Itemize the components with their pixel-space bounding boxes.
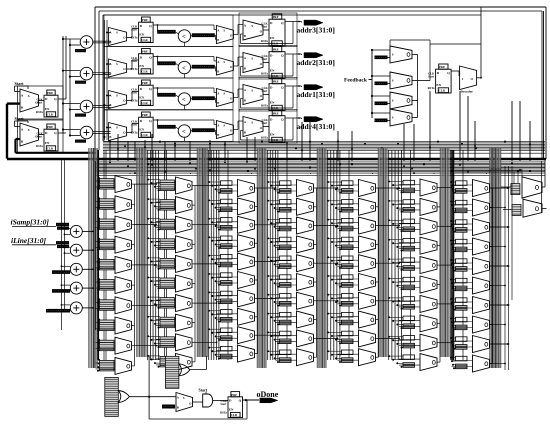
wire cell X6_6 in: [399, 281, 420, 283]
wire label to cmp row1: [176, 32, 179, 34]
wire cell X4_2 in: [276, 203, 297, 205]
row3 group box: [104, 78, 233, 110]
bus arrow addr3[31:0]: [304, 20, 323, 25]
wire cell X5_7 in: [338, 297, 359, 299]
cell mux X7_4: [456, 239, 468, 244]
wire cell X1_3 out: [132, 224, 135, 226]
wire adder A2 inputs: [63, 70, 80, 72]
cell mux X1_8: [100, 320, 115, 331]
svg-text:B: B: [217, 69, 219, 73]
feeder through-lines col4: [286, 150, 288, 360]
feeder through-lines col5: [348, 150, 350, 360]
wire cell X7_9 out: [490, 343, 493, 345]
wire reg out row1: [153, 24, 157, 26]
adder A3: [80, 100, 93, 113]
svg-text:EN: EN: [270, 132, 275, 136]
wire cell X3_8 out: [255, 316, 258, 318]
wire row2 inputs: [107, 63, 111, 65]
cell mux X7_7: [456, 298, 468, 303]
svg-text:iSamp[31:0]: iSamp[31:0]: [11, 218, 50, 227]
row4 right group box: [239, 110, 297, 144]
wire cell X5_8 in: [338, 316, 359, 318]
cell mux X2_10: [160, 356, 175, 367]
start block 1 enclosure: [18, 86, 64, 119]
wire cell X7_9 in: [452, 340, 473, 342]
cell mux X4_2: [280, 200, 292, 205]
mux M2_2: [216, 57, 233, 75]
svg-text:EN: EN: [139, 64, 144, 68]
wire mdone out: [193, 401, 203, 403]
feedback mux FM2: [390, 72, 412, 89]
svg-text:Q: Q: [149, 24, 152, 28]
wire cell X7_1 in: [452, 184, 473, 186]
wire cell X6_7 in: [399, 300, 420, 302]
wire adder A4 out: [93, 131, 111, 133]
bus junction dots: [109, 161, 111, 163]
svg-text:<: <: [182, 65, 186, 72]
mux start1: [20, 89, 39, 112]
output mux Y2: [523, 199, 542, 217]
cell mux X1_9: [100, 340, 115, 351]
wire top border outer: [95, 6, 546, 8]
wire cell X2_2 in: [156, 201, 176, 203]
register start2: [47, 124, 55, 129]
svg-text:RSTa: RSTa: [261, 104, 268, 108]
wire cell X1_7 out: [132, 304, 135, 306]
svg-text:addr2[31:0]: addr2[31:0]: [297, 58, 335, 67]
or gate G1: [118, 391, 129, 403]
wire cell X6_1 out: [437, 187, 440, 189]
adder AL1: [70, 225, 82, 237]
svg-text:Q: Q: [149, 87, 152, 91]
feeder lines col1: [98, 150, 100, 360]
wire cell X4_1 in: [276, 184, 297, 186]
wire cell X3_7 out: [255, 297, 258, 299]
cell mux X3_5: [221, 254, 233, 259]
wire cell X2_10 in: [156, 358, 176, 360]
wire cell X3_1 out: [255, 187, 258, 189]
wire cell X2_5 out: [192, 263, 195, 265]
cell mux X4_1: [280, 181, 292, 186]
wire cell X3_4 in: [217, 239, 238, 241]
wire adder AL5 in: [62, 304, 71, 306]
output mux hatch 1: [511, 184, 520, 195]
wire G2 out: [190, 369, 207, 371]
svg-text:Start: Start: [262, 58, 268, 61]
wire feedback mux 2 out: [412, 80, 418, 82]
mux M1_3: [109, 91, 127, 109]
svg-text:Q: Q: [447, 71, 450, 75]
value label AL4: [52, 289, 70, 293]
cell mux X5_8: [342, 312, 354, 317]
wire cell X3_5 in: [217, 258, 238, 260]
svg-text:PRE: PRE: [273, 112, 279, 116]
svg-text:<: <: [182, 128, 186, 135]
wire cell X5_5 out: [376, 262, 379, 264]
svg-text:RSTa: RSTa: [36, 144, 43, 148]
wire cell X6_2 out: [437, 206, 440, 208]
wire mux to reg row2: [127, 68, 132, 70]
wire cell X6_10 out: [437, 361, 440, 363]
wire cell X5_3 out: [376, 225, 379, 227]
wire mux1 to mux2 row2: [233, 65, 238, 67]
wire right collect vertical 3: [511, 166, 513, 300]
wire cell X1_4 out: [132, 244, 135, 246]
cell mux X3_7: [221, 291, 233, 296]
wire cell X5_3 in: [338, 222, 359, 224]
svg-text:RSTa: RSTa: [220, 411, 227, 415]
wire reg2 feedback loop row2: [292, 54, 294, 76]
feeder through-lines col1: [103, 150, 105, 362]
svg-text:EN: EN: [270, 100, 275, 104]
bus arrow addr1[31:0]: [304, 85, 323, 90]
mux start2: [20, 123, 39, 146]
feeder lines col6: [388, 150, 390, 360]
svg-text:EN: EN: [139, 95, 144, 99]
svg-text:CLR: CLR: [141, 133, 148, 137]
wire cmp4 down: [183, 137, 185, 141]
register R2_1: [272, 14, 282, 19]
wire reg2 Q row4: [285, 117, 302, 119]
adder A4: [80, 126, 93, 139]
wire cell X6_5 out: [437, 264, 440, 266]
svg-text:Start: Start: [428, 75, 434, 78]
wire cmp out row3: [191, 98, 192, 101]
svg-text:S: S: [28, 94, 30, 98]
wire cell X7_7 out: [490, 304, 493, 306]
wire cell X5_9 in: [338, 334, 359, 336]
svg-text:EN: EN: [229, 407, 234, 411]
register start1: [47, 90, 55, 95]
cell mux X7_1: [456, 181, 468, 186]
wire feedback mux 3 in: [372, 95, 390, 97]
cell mux X6_2: [403, 200, 415, 205]
comparator CMP3: [178, 93, 190, 105]
bus arrow addr4[31:0]: [304, 117, 323, 122]
wire mux2 to reg2 row4: [263, 126, 269, 128]
svg-text:PRE: PRE: [273, 80, 279, 84]
cell mux X5_9: [342, 331, 354, 336]
bus horizontal lines lower: [95, 161, 545, 163]
mux M3_2: [243, 53, 263, 73]
cell mux X3_2: [221, 199, 233, 204]
wire cell X2_8 in: [156, 319, 176, 321]
wire cell X1_3 in: [96, 221, 116, 223]
svg-text:Start: Start: [37, 135, 43, 138]
wire cell X1_7 in: [96, 301, 116, 303]
svg-text:RSTa: RSTa: [261, 39, 268, 43]
wire cell X4_10 out: [314, 356, 317, 358]
svg-text:Start: Start: [262, 122, 268, 125]
svg-text:PRE: PRE: [439, 65, 445, 69]
comparator CMP4: [178, 125, 190, 137]
feeder lines col2: [147, 150, 149, 360]
svg-text:RSTa: RSTa: [261, 72, 268, 76]
register R1_2: [142, 49, 151, 54]
adder AL3: [70, 263, 82, 275]
wire left vertical 2: [64, 160, 66, 312]
cell mux X6_8: [403, 316, 415, 321]
wire cell X5_2 in: [338, 203, 359, 205]
wire feedback mux 4 in: [372, 112, 390, 114]
wire adder collect vertical 1: [95, 161, 97, 330]
svg-text:Q: Q: [239, 398, 242, 402]
value label AL3: [52, 270, 70, 274]
wire row feed vertical a: [104, 20, 106, 140]
bus horizontal lines upper: [103, 140, 545, 142]
wire start1 loop: [14, 86, 16, 92]
wire reg out row2: [153, 56, 157, 58]
wire mux to reg row1: [127, 37, 132, 39]
wire thick feedback 2: [16, 138, 21, 140]
feeder lines col5: [327, 150, 329, 360]
wires array top headers: [129, 173, 131, 174]
svg-text:S: S: [251, 56, 253, 60]
svg-text:iLine[31:0]: iLine[31:0]: [11, 236, 46, 245]
cell mux X2_8: [160, 317, 175, 328]
wire top border inner: [103, 14, 481, 16]
wire row4 inputs: [107, 127, 111, 129]
wire cell X4_5 in: [276, 259, 297, 261]
register R1_1: [142, 17, 151, 22]
register R_done: [231, 392, 240, 397]
wire cell X2_7 in: [156, 299, 176, 301]
wire cell X1_2 out: [132, 203, 135, 205]
wire cell X7_2 out: [490, 207, 493, 209]
wire row1 cmp to mux: [214, 34, 217, 36]
wire mux2 to reg2 row3: [263, 94, 269, 96]
svg-text:B: B: [109, 40, 111, 44]
hatch stack S1: [105, 377, 119, 416]
row4 group box: [104, 110, 233, 142]
wire cell X5_6 out: [376, 281, 379, 283]
value label row1 a: [157, 30, 176, 34]
wire cell X5_9 out: [376, 337, 379, 339]
wire reg out row4: [153, 119, 157, 121]
wire G1 out: [129, 396, 176, 398]
svg-text:Q: Q: [149, 119, 152, 123]
value label adder A2: [75, 81, 86, 84]
cell mux X3_10: [221, 346, 233, 351]
hatch stack S2: [165, 356, 179, 388]
wire oDone out: [243, 399, 260, 401]
cell mux X5_4: [342, 237, 354, 242]
wire cell X3_1 in: [217, 184, 238, 186]
mux M2_4: [216, 121, 233, 139]
wire cell X6_5 in: [399, 261, 420, 263]
value label row3 b: [192, 96, 215, 100]
wire cell X2_10 out: [192, 361, 195, 363]
comparator CMP1: [178, 30, 190, 42]
wire cell X3_3 in: [217, 221, 238, 223]
wire cell X2_3 out: [192, 224, 195, 226]
wire output mux feed: [501, 186, 511, 188]
value label iLine: [56, 241, 69, 244]
svg-text:EN: EN: [139, 32, 144, 36]
wire mux2 to reg2 row1: [263, 29, 269, 31]
wires into output muxes: [455, 168, 522, 170]
wire reg2 Q row2: [285, 53, 302, 55]
cell mux X6_7: [403, 297, 415, 302]
wire cell X1_6 in: [96, 281, 116, 283]
wire cmp3 down: [183, 105, 185, 109]
wire adder A3 inputs: [63, 103, 80, 105]
cell mux X2_9: [160, 337, 175, 348]
wire right collect vertical 2: [508, 166, 510, 370]
bus arrow addr2[31:0]: [304, 53, 323, 58]
cell mux X6_1: [403, 180, 415, 185]
wire row3 inputs: [107, 95, 111, 97]
register R_fb: [439, 64, 448, 69]
cell mux X3_6: [221, 273, 233, 278]
svg-text:PRE: PRE: [47, 91, 53, 95]
wire adder AL4 out: [82, 287, 93, 289]
svg-text:S: S: [251, 120, 253, 124]
wire cell X5_4 in: [338, 240, 359, 242]
wire cell X6_2 in: [399, 203, 420, 205]
wire output mux2 out: [542, 208, 547, 210]
wire adder AL3 out: [82, 268, 93, 270]
wire box oDone section: [148, 356, 150, 419]
wire cell X3_3 out: [255, 224, 258, 226]
feedback value label 3: [375, 102, 388, 106]
wire right feedback up: [543, 11, 545, 158]
cell mux X3_1: [221, 181, 233, 186]
wire reg2 out: [58, 132, 66, 134]
wire cmp out row4: [191, 130, 192, 133]
wire cell X2_1 out: [192, 185, 195, 187]
wire adder A1 inputs: [63, 38, 80, 40]
wire feedback horizontal: [369, 79, 373, 81]
svg-text:oDone: oDone: [257, 390, 279, 399]
value label row2 a: [157, 61, 176, 65]
wire mux to reg row4: [127, 132, 132, 134]
wire cell X7_4 in: [452, 243, 473, 245]
svg-text:RSTa: RSTa: [36, 110, 43, 114]
svg-text:CLR: CLR: [141, 70, 148, 74]
wire cell X3_10 in: [217, 350, 238, 352]
wire cell X5_10 in: [338, 353, 359, 355]
wire reg2 Q row1: [285, 21, 302, 23]
wire cell X7_5 out: [490, 265, 493, 267]
wire cell X7_8 in: [452, 321, 473, 323]
svg-text:Q: Q: [149, 55, 152, 59]
bus thick line: [7, 158, 546, 161]
cell mux X1_3: [100, 219, 115, 230]
cell mux X2_7: [160, 298, 175, 309]
svg-text:Q: Q: [54, 97, 57, 101]
mux M3_1: [243, 20, 263, 40]
wire reg2 Q row3: [285, 85, 302, 87]
svg-text:CLR: CLR: [439, 89, 446, 93]
wire left vertical 1: [61, 160, 63, 330]
wire cell X1_9 in: [96, 342, 116, 344]
svg-text:PRE: PRE: [142, 113, 148, 117]
start block 2 enclosure: [18, 120, 64, 153]
cell mux X5_2: [342, 200, 354, 205]
svg-text:Q: Q: [281, 117, 284, 121]
wire cell X3_7 in: [217, 294, 238, 296]
svg-text:PRE: PRE: [47, 125, 53, 129]
wire cell X3_9 out: [255, 334, 258, 336]
value label row2 b: [192, 65, 215, 69]
wire output mux1 out: [542, 186, 545, 188]
row2 group box: [104, 47, 233, 79]
wire bundle B7: [439, 148, 441, 357]
adder A2: [80, 67, 93, 80]
svg-text:CLR: CLR: [231, 413, 238, 417]
wire label to cmp row3: [176, 95, 179, 97]
wire feedback mux 1 in: [372, 49, 390, 51]
wire adder A3 out: [93, 105, 111, 107]
cell mux X6_10: [403, 355, 415, 360]
wire cell X4_7 in: [276, 297, 297, 299]
wire adder collect vertical 2: [97, 161, 99, 318]
feeder lines col7: [450, 150, 452, 360]
wire thick feedback 1: [7, 102, 20, 104]
cell mux X2_2: [160, 200, 175, 211]
wire start bottom drop: [205, 392, 207, 394]
wire bundle B3: [196, 148, 198, 357]
wire cell X1_1 out: [132, 183, 135, 185]
cell mux X2_5: [160, 258, 175, 269]
and gate G3: [203, 394, 213, 407]
register R2_2: [272, 47, 282, 52]
svg-text:B: B: [217, 101, 219, 105]
feeder lines col4: [267, 150, 269, 360]
value label bottom mux: [162, 405, 175, 409]
wire decoder out: [477, 77, 481, 79]
wire vertical feed x70: [69, 39, 71, 136]
wire feedback collect vertical: [417, 55, 419, 118]
svg-text:PRE: PRE: [142, 81, 148, 85]
svg-text:Q: Q: [281, 53, 284, 57]
adder AL2: [70, 244, 82, 256]
value label AL5: [46, 309, 70, 313]
wire row feed vertical b: [106, 20, 108, 140]
wire cell X3_6 out: [255, 279, 258, 281]
value label row1 b: [192, 33, 215, 37]
wire adder A2 out: [93, 72, 111, 74]
cell mux X2_1: [160, 180, 175, 191]
wire cell X4_6 in: [276, 278, 297, 280]
wire cell X7_7 in: [452, 301, 473, 303]
svg-text:Q: Q: [54, 131, 57, 135]
output mux Y1: [522, 177, 542, 198]
wire cell X4_4 in: [276, 240, 297, 242]
feedback value label 2: [375, 82, 388, 86]
wire reg row4 to mux2: [158, 119, 215, 121]
svg-text:PRE: PRE: [231, 393, 237, 397]
output mux hatch 2: [512, 205, 521, 216]
wire cell X1_2 in: [96, 200, 116, 202]
svg-text:PRE: PRE: [142, 50, 148, 54]
wire cell X6_1 in: [399, 184, 420, 186]
wire cell X4_9 out: [314, 337, 317, 339]
svg-text:EN: EN: [139, 127, 144, 131]
wire cell X4_9 in: [276, 334, 297, 336]
bus arrow oDone: [260, 398, 278, 403]
wire cell X1_5 in: [96, 261, 116, 263]
cell mux X5_3: [342, 218, 354, 223]
wire cell X5_4 out: [376, 243, 379, 245]
wire cell X1_5 out: [132, 264, 135, 266]
svg-text:CLR: CLR: [141, 101, 148, 105]
wire feedback mux 4 out: [412, 117, 418, 119]
svg-text:Decoder: Decoder: [461, 89, 474, 93]
svg-text:Start: Start: [262, 90, 268, 93]
wire bundle B4: [256, 148, 258, 368]
